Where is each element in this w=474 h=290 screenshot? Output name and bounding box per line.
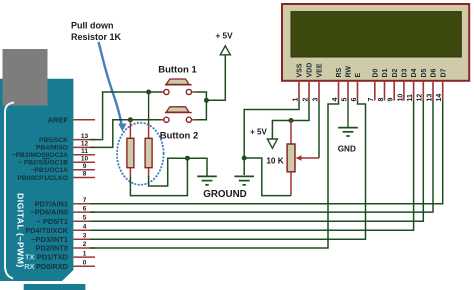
- ground symbol (buttons): [197, 176, 217, 184]
- wire D4(11) to Arduino pin 4: [90, 101, 414, 231]
- svg-text:D2: D2: [392, 68, 399, 77]
- svg-text:Pull down: Pull down: [71, 21, 114, 31]
- svg-text:VDD: VDD: [307, 63, 314, 78]
- annotation: Pull down Resistor 1K text: [71, 21, 122, 43]
- resistor R2 1K (right pull-down) top lead: [148, 124, 150, 138]
- svg-text:7: 7: [83, 197, 87, 204]
- wire pin13 to Button1 left: [90, 92, 162, 140]
- power +5V arrow (pot, pointing down): [267, 139, 277, 148]
- pin 7 (PD7/AIN1) label+stub+number: [35, 197, 95, 208]
- svg-text:2: 2: [83, 241, 87, 248]
- potentiometer RV1 10K top lead: [290, 121, 292, 145]
- svg-text:PB4/MISO: PB4/MISO: [36, 145, 68, 152]
- pin 1 (PD1/TXD) label+stub+number: [37, 250, 95, 261]
- label Button 2: [160, 130, 199, 141]
- svg-text:D6: D6: [431, 68, 438, 77]
- LCD pin 12 D5: name label, stub, number: [417, 68, 428, 101]
- wire node A to R2 top: [148, 92, 150, 126]
- pin 13 (PB5/SCK) label+stub+number: [39, 133, 95, 144]
- resistor R1 1K (left pull-down) top lead: [129, 120, 131, 139]
- svg-text:TX: TX: [25, 253, 35, 262]
- LCD LM016L body: [282, 4, 469, 81]
- wire R1 bottom to ground junction: [130, 159, 187, 196]
- push button SW1 (Button 1): [160, 79, 195, 95]
- svg-text:10: 10: [397, 94, 404, 102]
- wire VSS(1) to ground: [244, 101, 299, 176]
- wire RS(4) to Arduino pin 2: [90, 101, 339, 249]
- svg-text:DIGITAL (~PWM): DIGITAL (~PWM): [16, 193, 26, 268]
- svg-text:10: 10: [81, 156, 89, 163]
- LCD pin 5 RW: name label, stub, number: [341, 66, 352, 102]
- svg-text:Resistor 1K: Resistor 1K: [71, 32, 122, 42]
- LCD pin 14 D7: name label, stub, number: [436, 68, 447, 101]
- pin 6 (~PD6/AIN0) label+stub+number: [30, 205, 95, 216]
- svg-text:RS: RS: [336, 67, 343, 77]
- svg-text:D7: D7: [440, 68, 447, 77]
- annotation: blue dotted ellipse around resistors: [117, 123, 164, 185]
- label 10 K: [266, 157, 283, 166]
- LCD pin 11 D4: name label, stub, number: [407, 68, 418, 101]
- wire VEE(3) down to wiper: [318, 101, 320, 159]
- svg-text:12: 12: [81, 141, 89, 148]
- junction node D (ground net): [185, 156, 190, 161]
- label +5V (buttons): [215, 32, 233, 41]
- label Button 1: [158, 65, 197, 76]
- pin 0 (PD0/RXD) label+stub+number: [36, 259, 95, 270]
- pin 10 (PB2/SS/OC1B) label+stub+number: [18, 156, 95, 167]
- DIGITAL (~PWM) port label: [16, 193, 26, 268]
- svg-text:3: 3: [83, 232, 87, 239]
- wire VDD(2) to +5V node: [292, 101, 309, 121]
- wire R2 bottom to ground junction: [149, 158, 186, 186]
- LCD pin 4 RS: name label, stub, number: [332, 67, 343, 101]
- svg-text:1: 1: [83, 250, 87, 257]
- svg-text:VEE: VEE: [317, 63, 324, 77]
- wire D5(12) to Arduino pin 5: [90, 101, 423, 222]
- LCD pin 3 VEE: name label, stub, number: [312, 63, 323, 101]
- RX marker: [24, 262, 34, 271]
- wire D6(13) to Arduino pin 6: [90, 101, 433, 213]
- power +5V arrow (buttons): [220, 46, 230, 55]
- LCD pin 7 D0: name label, stub, number: [368, 68, 379, 101]
- LCD pin 6 E: name label, stub, number: [351, 73, 362, 102]
- svg-text:10 K: 10 K: [266, 157, 283, 166]
- svg-text:11: 11: [81, 148, 88, 155]
- svg-text:13: 13: [426, 94, 433, 102]
- svg-text:PB5/SCK: PB5/SCK: [39, 137, 68, 144]
- wire E(6) to Arduino pin 3: [90, 101, 366, 240]
- TX marker: [25, 253, 35, 262]
- LCD pin 1 VSS: name label, stub, number: [292, 63, 303, 101]
- svg-text:8: 8: [83, 171, 87, 178]
- label +5V (pot): [250, 127, 267, 136]
- label GROUND: [203, 189, 247, 200]
- wire pin12 to Button2 left: [90, 120, 162, 148]
- svg-text:+ 5V: + 5V: [250, 127, 267, 136]
- svg-text:PD4/T0/XCK: PD4/T0/XCK: [25, 226, 68, 235]
- svg-text:E: E: [355, 73, 362, 78]
- ground symbol (VSS / pot): [234, 176, 254, 184]
- pin 9 (PB1/OC1A) label+stub+number: [31, 163, 95, 174]
- wire Button2 right to +5V rail: [195, 102, 207, 120]
- pin 3 (~PD3/INT1) label+stub+number: [31, 232, 95, 243]
- svg-text:D5: D5: [421, 68, 428, 77]
- resistor R2 bottom lead: [148, 168, 150, 177]
- wire node F to +5V arrow (pot): [272, 121, 290, 140]
- svg-text:RX: RX: [24, 262, 34, 271]
- svg-text:~PB1/OC1A: ~PB1/OC1A: [31, 167, 69, 174]
- LCD pin 2 VDD: name label, stub, number: [302, 63, 313, 102]
- ground symbol GND (RW): [338, 128, 358, 136]
- LCD pin 9 D2: name label, stub, number: [388, 68, 399, 101]
- pin 5 (~ PD5/T1) label+stub+number: [37, 214, 95, 225]
- wire Button1 right to +5V rail: [195, 92, 207, 98]
- svg-text:PD2/INT0: PD2/INT0: [36, 244, 68, 253]
- svg-text:8: 8: [378, 98, 385, 102]
- svg-text:Button 1: Button 1: [158, 65, 197, 76]
- pin AREF label: [48, 116, 69, 125]
- svg-text:AREF: AREF: [48, 116, 69, 125]
- svg-text:GROUND: GROUND: [203, 189, 247, 200]
- svg-text:5: 5: [83, 214, 87, 221]
- svg-text:D4: D4: [411, 68, 418, 77]
- junction node E (gnd/pot-bottom): [242, 156, 247, 161]
- push button SW2 (Button 2): [160, 107, 195, 123]
- svg-text:GND: GND: [338, 144, 356, 153]
- wire node D to ground symbol: [187, 158, 207, 176]
- junction node F (pot top / +5V): [289, 118, 294, 123]
- svg-text:RW: RW: [346, 66, 353, 78]
- label GND: [338, 144, 356, 153]
- potentiometer RV1 10K body: [287, 144, 295, 172]
- pin 11 (PB3/MOSI/OC2A) label+stub+number: [12, 148, 95, 159]
- svg-text:9: 9: [83, 163, 87, 170]
- resistor R2 1K body: [145, 138, 152, 167]
- pin 2 (PD2/INT0) label+stub+number: [36, 241, 95, 252]
- svg-text:+ 5V: + 5V: [215, 32, 233, 41]
- svg-text:PD0/RXD: PD0/RXD: [36, 262, 69, 271]
- svg-text:13: 13: [81, 133, 89, 140]
- svg-text:11: 11: [407, 94, 414, 102]
- svg-text:~ PD5/T1: ~ PD5/T1: [37, 217, 68, 226]
- svg-text:D3: D3: [402, 68, 409, 77]
- junction node C (+5V rail): [204, 98, 209, 103]
- pin 4 (PD4/T0/XCK) label+stub+number: [25, 224, 95, 235]
- LCD pin 13 D6: name label, stub, number: [426, 68, 437, 101]
- junction node A (Button1/R2): [146, 90, 151, 95]
- svg-text:PD1/TXD: PD1/TXD: [37, 253, 69, 262]
- svg-text:~ PB2/SS/OC1B: ~ PB2/SS/OC1B: [18, 160, 68, 167]
- svg-text:~PD3/INT1: ~PD3/INT1: [31, 235, 68, 244]
- wire node C to +5V arrow: [206, 55, 225, 101]
- svg-text:14: 14: [436, 94, 443, 102]
- potentiometer RV1 bottom lead: [290, 172, 292, 196]
- svg-text:~PD6/AIN0: ~PD6/AIN0: [30, 208, 68, 217]
- svg-text:9: 9: [388, 98, 395, 102]
- pin 8 (PB0/ICP1/CLKO) label+stub+number: [17, 171, 95, 182]
- LCD pin 10 D3: name label, stub, number: [397, 68, 408, 101]
- USB connector: [3, 49, 48, 106]
- wire D7(14) to Arduino pin 7: [90, 101, 443, 204]
- svg-text:D1: D1: [382, 68, 389, 77]
- pin 12 (PB4/MISO) label+stub+number: [36, 141, 95, 152]
- LCD pin 8 D1: name label, stub, number: [378, 68, 389, 101]
- resistor R1 1K body: [127, 138, 134, 167]
- resistor R1 bottom lead: [129, 168, 131, 178]
- svg-text:6: 6: [83, 205, 87, 212]
- potentiometer wiper arrow: [296, 155, 320, 161]
- svg-text:D0: D0: [372, 68, 379, 77]
- svg-text:PB0/ICP1/CLKO: PB0/ICP1/CLKO: [17, 175, 68, 182]
- junction node B (Button2/R1): [128, 117, 133, 122]
- board edge white outline: [5, 103, 14, 279]
- LCD screen: [291, 12, 461, 57]
- svg-text:7: 7: [368, 98, 375, 102]
- svg-text:12: 12: [417, 94, 424, 102]
- Arduino Uno board (ATmega328 module): [0, 79, 85, 290]
- svg-text:0: 0: [83, 259, 87, 266]
- annotation: blue arrow to pull-down resistors: [99, 42, 127, 132]
- svg-text:Button 2: Button 2: [160, 130, 199, 141]
- svg-text:~PB3/MOSI/OC2A: ~PB3/MOSI/OC2A: [12, 152, 68, 159]
- svg-text:4: 4: [83, 224, 87, 231]
- svg-text:VSS: VSS: [297, 63, 304, 77]
- wire RW(5) to GND symbol: [347, 101, 349, 128]
- wire pot bottom to ground node E: [245, 158, 291, 196]
- pin AREF stub: [73, 119, 95, 121]
